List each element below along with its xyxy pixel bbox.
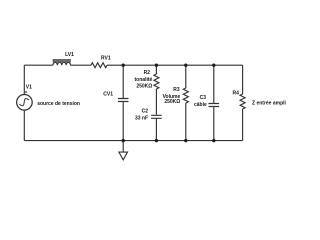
node dot bottom R2 — [155, 139, 158, 142]
wire R2 branch upper — [155, 65, 157, 74]
wire CV1 branch upper — [122, 65, 124, 98]
node dot bottom CV1 — [122, 139, 125, 142]
wire between R2 and C2 — [155, 89, 157, 115]
node dot bottom R3 — [184, 139, 187, 142]
resistor R2 — [154, 74, 159, 89]
wire R3 branch lower — [185, 103, 187, 141]
wire CV1 branch lower — [122, 102, 124, 140]
wire top right segment — [107, 64, 243, 66]
node dot top R2 — [155, 63, 158, 66]
wire right edge upper — [242, 65, 244, 94]
wire left edge above V1 — [23, 65, 25, 94]
voltage source V1 circle — [17, 95, 33, 111]
svg-text:R4: R4 — [233, 90, 240, 96]
wire C3 branch upper — [213, 65, 215, 103]
svg-text:tonalité: tonalité — [135, 77, 153, 83]
svg-text:CV1: CV1 — [103, 92, 113, 98]
svg-text:250KΩ: 250KΩ — [136, 83, 152, 89]
svg-text:source de tension: source de tension — [37, 101, 80, 107]
wire bottom — [24, 140, 242, 142]
inductor LV1 coil — [53, 62, 71, 65]
capacitor C3 — [209, 104, 220, 107]
svg-text:R2: R2 — [144, 70, 151, 76]
inductor LV1 core bar — [53, 59, 71, 62]
ground triangle — [119, 152, 128, 160]
capacitor CV1 — [118, 99, 129, 102]
node dot bottom C3 — [212, 139, 215, 142]
svg-text:33 nF: 33 nF — [135, 115, 148, 121]
node dot top CV1 — [122, 63, 125, 66]
svg-text:V1: V1 — [26, 84, 32, 90]
wire C2 lower — [155, 119, 157, 141]
V1 plus sign — [25, 91, 27, 93]
svg-text:Z entrée ampli: Z entrée ampli — [252, 100, 287, 106]
capacitor C2 — [151, 115, 162, 118]
resistor RV1 — [91, 63, 107, 68]
node dot top R3 — [184, 63, 187, 66]
svg-text:250KΩ: 250KΩ — [164, 99, 180, 105]
wire top left segment — [24, 64, 53, 66]
voltage source V1 sine curve — [19, 99, 29, 106]
svg-text:R3: R3 — [173, 87, 180, 93]
resistor R3 — [183, 88, 188, 103]
wire R3 branch upper — [185, 65, 187, 88]
node dot top C3 — [212, 63, 215, 66]
wire C3 branch lower — [213, 107, 215, 141]
wire right edge lower — [242, 109, 244, 141]
svg-text:C3: C3 — [200, 95, 207, 101]
svg-text:C2: C2 — [142, 109, 149, 115]
svg-text:RV1: RV1 — [101, 55, 111, 61]
wire left edge below V1 — [23, 110, 25, 141]
wire between LV1 and RV1 — [71, 64, 92, 66]
resistor R4 — [240, 94, 245, 109]
svg-text:LV1: LV1 — [65, 52, 74, 58]
ground stem — [122, 141, 124, 153]
svg-text:câble: câble — [194, 102, 207, 108]
